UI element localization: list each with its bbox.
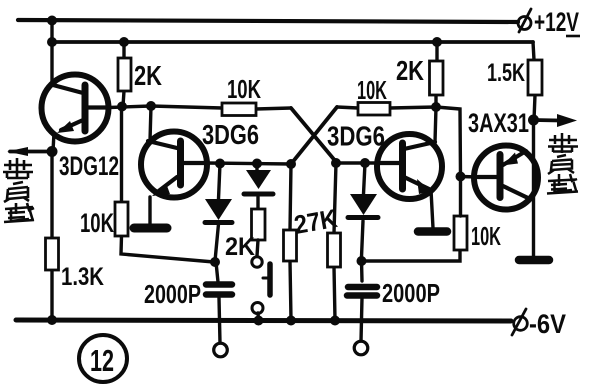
svg-text:2000P: 2000P (144, 279, 201, 309)
resistor R2 1.3K (50, 151, 53, 320)
svg-text:10K: 10K (227, 74, 261, 104)
wire cross diagonal A (291, 108, 337, 163)
resistor R11 1.5K (533, 42, 535, 120)
terminal T2 (354, 341, 368, 355)
wire Q3 collector up (435, 107, 436, 142)
label dai-fu-zai left (3, 158, 34, 222)
svg-text:10K: 10K (80, 208, 114, 238)
resistor R6 2K right (436, 42, 437, 107)
node second-rail left junction (47, 37, 57, 47)
wire Q2 collector drop (150, 106, 151, 141)
ground Q3 emitter (418, 227, 447, 236)
ground Q4 (519, 256, 549, 265)
node D1 top (215, 159, 225, 169)
node diag arrival (331, 158, 341, 168)
node Q1 base R1 bottom (117, 102, 127, 112)
node output (528, 115, 539, 126)
ground Q2 emitter (134, 224, 167, 233)
wire second rail (52, 40, 533, 44)
resistor R5 10K horizontal right (337, 107, 436, 108)
node rail bottom-left (47, 315, 57, 325)
arrow left output (7, 147, 28, 156)
wire cross diagonal B (291, 107, 337, 164)
wire bottom -6V rail (16, 320, 511, 321)
switch K top contact (252, 257, 262, 267)
svg-text:1.5K: 1.5K (487, 59, 525, 87)
wire Q4 base (461, 175, 479, 179)
node Q4 base (456, 172, 466, 182)
node rail switch (254, 316, 264, 326)
transistor Q3 3DG6 (377, 134, 442, 228)
svg-text:2K: 2K (134, 60, 162, 91)
terminal phi -6V (512, 309, 527, 335)
arrow right output (534, 118, 561, 122)
switch K bottom contact (252, 303, 263, 314)
transistor Q1 3DG12 (42, 75, 111, 152)
svg-text:+12V: +12V (534, 7, 579, 37)
wire Q3 collector to Q4 base (436, 107, 461, 176)
diode D2 (257, 164, 258, 210)
svg-text:1.3K: 1.3K (61, 263, 104, 291)
switch K lever (267, 264, 273, 295)
figure number 12 (79, 335, 127, 382)
label dai-fu-zai right (547, 133, 578, 194)
node D1 bottom junction (210, 257, 220, 267)
terminal phi +12V (518, 9, 531, 32)
wire left drop from top rail (50, 20, 53, 84)
capacitor C1 2000P (216, 262, 220, 343)
svg-text:-6V: -6V (529, 309, 566, 339)
terminal T1 (214, 343, 228, 357)
diode D3 (362, 163, 366, 257)
svg-text:3DG6: 3DG6 (327, 121, 385, 152)
node rail 27K right (330, 316, 340, 326)
resistor R10 10K right (454, 216, 467, 250)
resistor R4 10K horizontal (151, 106, 291, 109)
node top-left junction (47, 16, 57, 26)
svg-text:3DG12: 3DG12 (59, 151, 119, 181)
svg-text:2K: 2K (225, 233, 255, 261)
svg-text:3DG6: 3DG6 (202, 119, 259, 150)
node D2 top (252, 159, 262, 169)
node left input junction (47, 146, 58, 157)
resistor R1 2K (123, 42, 124, 106)
capacitor C2 2000P (361, 261, 362, 341)
wire Q2 base line (207, 163, 291, 164)
node 2K R6 top (432, 37, 442, 47)
transistor Q4 3AX31 (474, 146, 538, 210)
wire top +12V rail (18, 20, 518, 22)
svg-text:2000P: 2000P (382, 278, 440, 308)
wire Q3 base segment (337, 161, 378, 164)
diode D1 (215, 164, 220, 262)
svg-text:10K: 10K (357, 75, 387, 105)
node D3 top (360, 158, 370, 168)
svg-text:2K: 2K (396, 55, 424, 86)
wire Q4 right vertical (532, 120, 535, 256)
node 27K diag junction (286, 159, 296, 169)
node Q3 collector (431, 102, 441, 112)
svg-text:3AX31: 3AX31 (468, 108, 529, 138)
resistor R9 2K switch branch (252, 209, 266, 240)
resistor R3 10K vertical left (121, 111, 214, 262)
resistor R7 27K left (290, 164, 291, 320)
wire left input (10, 150, 52, 154)
node rail 27K left (286, 316, 296, 326)
node 2K R1 top (119, 37, 129, 47)
resistor R8 27K right (334, 163, 336, 320)
svg-text:12: 12 (90, 343, 114, 378)
svg-text:10K: 10K (471, 221, 501, 251)
wire feedback to 10K right (364, 250, 460, 261)
transistor Q2 3DG6 (141, 132, 207, 225)
node D3 bottom junction (357, 256, 367, 266)
node Q2 collector tie (146, 101, 156, 111)
wire Q1 base node (109, 106, 151, 108)
